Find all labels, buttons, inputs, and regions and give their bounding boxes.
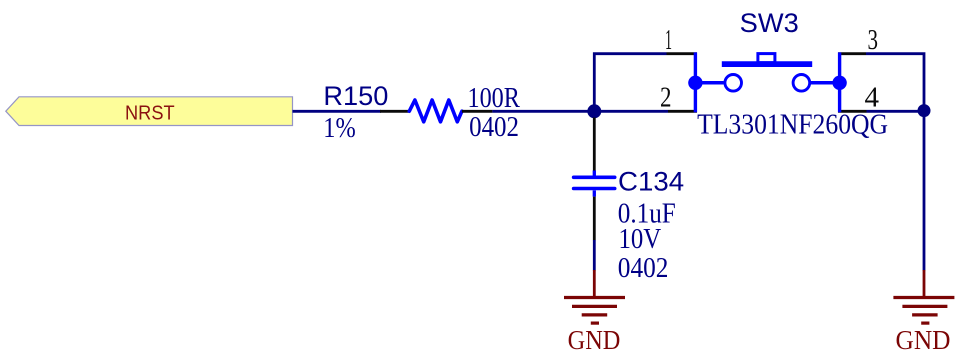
wire xyxy=(293,110,382,113)
svg-text:TL3301NF260QG: TL3301NF260QG xyxy=(697,110,888,141)
switch right pole dot xyxy=(832,76,846,90)
resistor R150 xyxy=(380,100,492,122)
wire xyxy=(593,240,596,271)
switch actuator bar xyxy=(722,61,812,67)
switch left contact circle xyxy=(725,75,742,92)
wire xyxy=(866,54,924,112)
power port GND left xyxy=(564,270,625,355)
junction node 2 xyxy=(918,104,931,117)
svg-text:0402: 0402 xyxy=(618,253,669,284)
switch left pole dot xyxy=(688,76,702,90)
wire xyxy=(867,110,925,113)
svg-text:3: 3 xyxy=(868,25,879,56)
wire xyxy=(594,54,666,112)
wire xyxy=(923,111,926,270)
wire xyxy=(492,110,594,113)
svg-text:GND: GND xyxy=(568,325,621,355)
svg-text:10V: 10V xyxy=(619,224,662,255)
svg-text:NRST: NRST xyxy=(125,101,175,124)
svg-text:100R: 100R xyxy=(468,83,521,114)
pin 3 xyxy=(838,52,866,55)
switch left pole bar xyxy=(694,52,697,112)
svg-text:2: 2 xyxy=(660,82,672,113)
svg-text:1%: 1% xyxy=(323,113,355,144)
switch actuator button xyxy=(758,54,775,63)
pin 4 xyxy=(838,110,867,113)
pin 1 xyxy=(667,52,698,55)
pin 2 xyxy=(668,110,697,113)
switch SW3 xyxy=(667,52,867,112)
switch right contact lead xyxy=(811,81,840,85)
svg-text:R150: R150 xyxy=(323,81,388,111)
junction node 1 xyxy=(587,104,601,118)
port NRST xyxy=(6,97,293,126)
switch left contact lead xyxy=(695,81,723,85)
svg-text:1: 1 xyxy=(665,25,672,56)
wire xyxy=(593,111,596,118)
switch right contact circle xyxy=(793,75,810,92)
svg-text:GND: GND xyxy=(896,325,951,355)
svg-text:C134: C134 xyxy=(618,167,684,197)
svg-text:SW3: SW3 xyxy=(740,8,799,38)
wire xyxy=(594,110,668,113)
svg-text:0402: 0402 xyxy=(469,112,519,143)
switch right pole bar xyxy=(838,52,841,112)
capacitor C134 xyxy=(574,118,615,241)
power port GND right xyxy=(893,270,954,355)
